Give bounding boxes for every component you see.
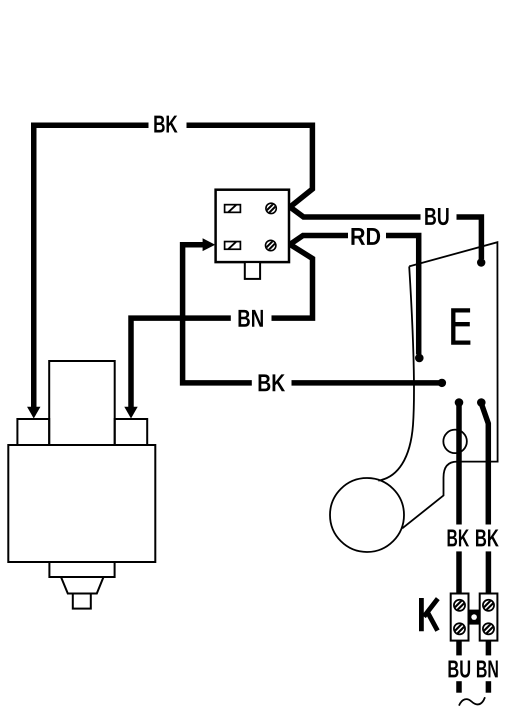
switch E cam follower roller [443, 430, 467, 454]
wire BU bottom stub [456, 681, 462, 693]
wire BK top left segment to motor terminal [34, 125, 149, 409]
wire break squiggle [459, 697, 485, 705]
motor M upper housing [49, 361, 115, 445]
block K screw 4 [481, 621, 496, 636]
connector X screw terminal 1 [264, 201, 278, 215]
wire switch contact left upper segment [456, 404, 462, 525]
wire BN below block K upper stub [486, 641, 492, 656]
motor M right shoulder [115, 419, 148, 445]
wire contact left lower segment to block K [456, 551, 462, 593]
label K terminal block [421, 598, 437, 631]
wire BU right segment down to switch E [457, 217, 482, 259]
arrow into motor left terminal [27, 407, 40, 419]
junction dot contact left [455, 398, 464, 407]
connector X body [216, 190, 289, 262]
svg-text:BN: BN [476, 656, 499, 683]
block K screw 2 [452, 621, 467, 636]
svg-text:BK: BK [475, 525, 499, 552]
motor M left shoulder [17, 419, 49, 445]
wire contact right lower segment to block K [486, 551, 492, 593]
connector X flat terminal pin 2 [225, 242, 241, 250]
terminal block K left body [451, 594, 469, 641]
switch E panel outline [402, 242, 497, 528]
svg-text:BU: BU [447, 656, 471, 683]
label E switch [451, 308, 470, 344]
wire BN right segment from connector X [272, 244, 313, 318]
connector X flat terminal pin 1 [225, 205, 241, 213]
connector X screw terminal 2 [264, 238, 278, 252]
wire RD left segment from connector X [290, 236, 348, 245]
connector X bottom tab [245, 262, 260, 279]
block K screw 1 [452, 598, 467, 613]
block K screw 3 [481, 598, 496, 613]
svg-text:RD: RD [350, 224, 381, 251]
wire BN bottom stub [486, 681, 492, 693]
motor M neck [49, 562, 114, 577]
wire BU below block K upper stub [456, 641, 462, 656]
junction dot BU on switch E [477, 258, 485, 266]
arrow into connector X terminal [203, 238, 216, 251]
terminal block K right body [480, 594, 498, 641]
svg-text:BK: BK [153, 112, 178, 139]
wire BK middle left segment with branch to connector arrow [183, 245, 252, 383]
wire RD right segment down into switch E [386, 236, 419, 355]
motor M cone [61, 577, 104, 594]
wire BN left segment down to motor terminal [131, 318, 231, 409]
svg-text:BU: BU [424, 204, 450, 231]
wire BK top right segment down to connector X [187, 125, 313, 207]
switch E left edge curve [378, 266, 414, 480]
junction dot RD on switch E [415, 354, 424, 363]
wire switch contact right upper segment [482, 404, 489, 525]
switch E cam wheel [330, 478, 404, 552]
terminal block K center link [469, 610, 480, 625]
svg-text:BK: BK [257, 370, 285, 397]
arrow into motor right terminal [124, 407, 137, 419]
wire BK middle right segment to switch E [292, 380, 441, 386]
svg-text:BN: BN [237, 306, 264, 333]
motor M shaft stub [73, 594, 91, 609]
motor M main body [8, 445, 155, 562]
svg-text:BK: BK [447, 525, 470, 552]
wire BU left segment from connector X [290, 207, 421, 217]
junction dot BK middle on switch E [438, 379, 446, 387]
junction dot contact right [477, 398, 486, 407]
